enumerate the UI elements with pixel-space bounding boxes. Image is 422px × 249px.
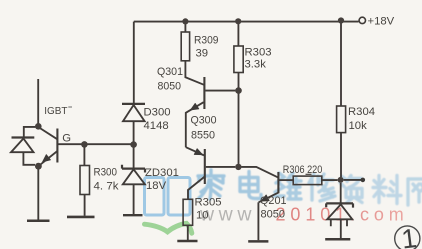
svg-text:R305: R305: [195, 196, 222, 208]
svg-text:R306 220: R306 220: [283, 164, 323, 176]
svg-text:4. 7k: 4. 7k: [94, 181, 119, 193]
svg-text:R304: R304: [348, 106, 375, 118]
svg-text:IGBT: IGBT: [44, 106, 68, 117]
svg-text:18V: 18V: [146, 180, 167, 192]
svg-text:Q201: Q201: [260, 195, 287, 207]
svg-text:8050: 8050: [158, 80, 182, 92]
svg-text:10: 10: [196, 209, 209, 221]
svg-text:4148: 4148: [144, 120, 169, 132]
svg-text:1: 1: [400, 223, 419, 249]
svg-text:Q300: Q300: [191, 115, 217, 127]
svg-text:R303: R303: [245, 46, 272, 58]
svg-text:3.3k: 3.3k: [245, 59, 267, 71]
svg-text:G: G: [62, 133, 71, 145]
svg-text:D300: D300: [144, 106, 171, 118]
svg-text:R300: R300: [94, 167, 118, 179]
svg-text:8050: 8050: [261, 209, 286, 221]
svg-text:Q301: Q301: [157, 66, 183, 78]
svg-text:39: 39: [196, 47, 209, 59]
svg-text:R309: R309: [194, 35, 219, 47]
svg-text:+18V: +18V: [368, 16, 395, 28]
svg-text:10k: 10k: [349, 120, 368, 132]
svg-text:ZD301: ZD301: [145, 167, 179, 179]
svg-text:8550: 8550: [191, 130, 215, 142]
